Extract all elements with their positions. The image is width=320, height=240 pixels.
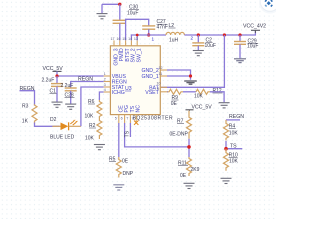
- node TS junction: [224, 147, 228, 151]
- node PMID-C30 junction: [118, 3, 121, 6]
- ground pins12-11: [184, 81, 197, 84]
- wire R12 to ground: [210, 92, 224, 103]
- ground R5: [113, 185, 124, 190]
- capacitor C28: [61, 83, 77, 104]
- pin 2 REGN: [104, 78, 127, 86]
- svg-text:10uF: 10uF: [247, 44, 258, 50]
- wire R9 to R12: [183, 91, 196, 93]
- svg-text:11: 11: [159, 72, 163, 76]
- svg-text:0E: 0E: [122, 158, 129, 164]
- svg-text:17: 17: [111, 37, 115, 41]
- svg-text:8: 8: [132, 117, 134, 121]
- pin 17 GND_3: [52, 37, 119, 182]
- wire GND_2 GND_1 to ground: [167, 70, 191, 80]
- svg-text:U3: U3: [125, 86, 132, 92]
- svg-text:ICHG: ICHG: [112, 90, 125, 96]
- pin 11 GND_1: [141, 72, 167, 80]
- resistor R4: [224, 120, 239, 140]
- svg-text:7: 7: [126, 117, 128, 121]
- capacitor C27: [142, 19, 168, 35]
- svg-text:1K: 1K: [22, 118, 29, 124]
- svg-text:2: 2: [191, 35, 194, 40]
- ground R10: [221, 178, 232, 183]
- pin 3 STAT: [104, 83, 125, 91]
- node SW-C27 junction: [147, 33, 150, 36]
- node C29 junction: [238, 33, 241, 36]
- pin 10 BAT: [149, 81, 167, 91]
- pin 4 ICHG: [104, 88, 125, 96]
- node R7-R11 junction: [187, 145, 191, 149]
- svg-text:BQ25308RTER: BQ25308RTER: [133, 115, 174, 121]
- wire VSET row: [167, 91, 168, 93]
- ground C1: [52, 102, 63, 107]
- svg-text:1uH: 1uH: [169, 37, 179, 43]
- wire R3 to D2: [35, 123, 60, 127]
- wire REGN row pin2: [71, 82, 104, 88]
- wire top gnd rail: [102, 4, 120, 13]
- svg-text:SW_1: SW_1: [137, 48, 143, 62]
- ground R12: [219, 103, 230, 108]
- capacitor C30: [113, 4, 139, 40]
- wire BAT to rail: [160, 35, 224, 87]
- pin 14 SW_2: [128, 37, 137, 62]
- pin 7 TS: [126, 105, 135, 123]
- LED D2: [50, 117, 81, 141]
- svg-text:2K9: 2K9: [191, 167, 200, 173]
- pin 12 GND_2: [141, 66, 167, 74]
- svg-text:2.2uF: 2.2uF: [42, 77, 55, 83]
- wire ICHG pin4 to R6: [99, 92, 103, 100]
- no-connect X pin 8: [134, 121, 138, 125]
- pin 1 VBUS: [104, 72, 127, 80]
- pin 6 PG: [121, 105, 131, 124]
- resistor R12: [194, 88, 223, 100]
- svg-text:TS: TS: [230, 144, 237, 150]
- pin 9 VSET: [145, 87, 167, 96]
- svg-text:3: 3: [104, 83, 106, 87]
- resistor R7: [170, 111, 192, 139]
- pin 8 NC: [132, 105, 142, 124]
- svg-text:4: 4: [104, 88, 106, 92]
- svg-text:VCC_4V2: VCC_4V2: [243, 24, 266, 30]
- wire pin5 to R5: [118, 123, 120, 157]
- svg-text:NC: NC: [136, 105, 142, 113]
- svg-text:VCC_5V: VCC_5V: [192, 105, 213, 111]
- svg-text:REGN: REGN: [78, 76, 93, 82]
- resistor R10: [224, 149, 239, 171]
- net label REGN right: [226, 114, 244, 120]
- capacitor C1: [42, 76, 64, 102]
- svg-text:5: 5: [115, 117, 117, 121]
- ground top-left: [97, 14, 108, 19]
- svg-text:13: 13: [134, 37, 138, 41]
- svg-text:TS: TS: [125, 130, 131, 137]
- svg-text:10K: 10K: [229, 159, 239, 165]
- ground C29: [234, 59, 246, 63]
- svg-text:6: 6: [121, 117, 123, 121]
- inductor L2: [166, 23, 184, 43]
- capacitor C2: [192, 35, 216, 50]
- svg-text:0E: 0E: [180, 173, 187, 179]
- svg-text:47nF: 47nF: [157, 25, 168, 31]
- svg-text:VSET: VSET: [145, 90, 159, 96]
- svg-text:10K: 10K: [229, 130, 239, 136]
- pin 16 PMID: [117, 37, 126, 61]
- wire pin7 TS stub: [129, 123, 131, 137]
- node C2 junction: [197, 33, 200, 36]
- resistor R11: [178, 157, 200, 179]
- ground C2: [193, 51, 204, 56]
- capacitor C29: [234, 35, 258, 58]
- svg-text:R3: R3: [22, 103, 29, 109]
- IC U3 BQ25308RTER body: [110, 46, 160, 115]
- svg-text:0E-DNP: 0E-DNP: [170, 131, 189, 137]
- svg-text:1: 1: [152, 37, 155, 42]
- svg-text:1: 1: [104, 72, 106, 76]
- wire SW rail: [131, 35, 166, 40]
- svg-text:DNP: DNP: [123, 171, 134, 177]
- resistor R6: [85, 99, 102, 119]
- wire pin6 to R7-R11 junction: [125, 123, 189, 157]
- svg-text:16: 16: [117, 37, 121, 41]
- resistor R2: [85, 119, 102, 142]
- node BAT branch junction: [223, 33, 226, 36]
- power VCC_4V2: [243, 24, 266, 33]
- pin 15 BTST: [122, 37, 131, 62]
- svg-text:2.2uF: 2.2uF: [61, 83, 74, 89]
- wire R4 to TS junction: [226, 141, 242, 149]
- svg-text:10K: 10K: [194, 94, 204, 100]
- wire VBUS row: [57, 75, 104, 77]
- wire VCC_4V2 rail: [184, 31, 255, 35]
- pin 5 /CE: [115, 105, 125, 124]
- node VCC5V-C1 junction: [55, 74, 58, 77]
- svg-text:10K: 10K: [85, 135, 95, 141]
- svg-text:0E: 0E: [171, 101, 178, 107]
- wire BTST to C27: [126, 19, 149, 40]
- net label REGN left: [20, 86, 35, 92]
- svg-text:10uF: 10uF: [127, 11, 138, 17]
- resistor R3: [22, 103, 37, 124]
- power VCC_5V right: [186, 105, 213, 111]
- svg-text:10uF: 10uF: [205, 43, 216, 49]
- svg-text:10K: 10K: [85, 113, 95, 119]
- resistor R9: [168, 89, 184, 107]
- svg-text:12: 12: [159, 66, 163, 70]
- ground R11: [184, 183, 195, 188]
- svg-text:2: 2: [104, 78, 106, 82]
- ground C28: [65, 104, 76, 109]
- svg-text:D2: D2: [50, 117, 57, 123]
- wire REGN to R3: [20, 91, 35, 106]
- svg-text:14: 14: [128, 37, 132, 41]
- svg-text:BLUE LED: BLUE LED: [50, 134, 75, 140]
- resistor R5: [109, 156, 134, 177]
- power VCC_5V left: [43, 66, 64, 76]
- viewer icon top-right: [259, 0, 281, 14]
- svg-text:15: 15: [122, 37, 126, 41]
- ground R2: [94, 145, 105, 150]
- wire D2 to STAT pin3: [81, 87, 104, 126]
- svg-text:GND_1: GND_1: [141, 74, 158, 80]
- pin 13 SW_1: [134, 37, 143, 62]
